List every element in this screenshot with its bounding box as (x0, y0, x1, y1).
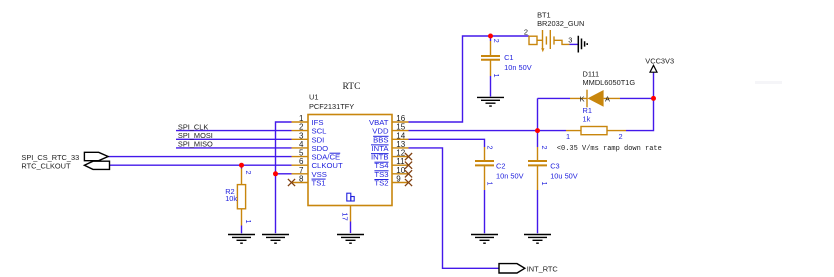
svg-text:1: 1 (540, 182, 549, 186)
svg-text:2: 2 (244, 171, 253, 175)
svg-text:BR2032_GUN: BR2032_GUN (537, 19, 584, 28)
svg-text:17: 17 (340, 212, 349, 220)
svg-text:SDO: SDO (312, 144, 329, 153)
svg-text:<0.35 V/ms ramp down rate: <0.35 V/ms ramp down rate (557, 145, 662, 153)
svg-text:A: A (605, 95, 610, 104)
svg-text:1: 1 (244, 220, 253, 224)
svg-text:2: 2 (486, 146, 495, 150)
svg-text:13: 13 (396, 140, 405, 149)
svg-text:RTC_CLKOUT: RTC_CLKOUT (21, 161, 71, 170)
svg-text:C2: C2 (496, 161, 505, 170)
svg-text:1k: 1k (583, 115, 591, 124)
svg-text:MMDL6050T1G: MMDL6050T1G (583, 78, 636, 87)
svg-text:2: 2 (492, 39, 501, 43)
svg-text:1: 1 (492, 74, 501, 78)
svg-text:9: 9 (396, 175, 401, 184)
svg-text:10n 50V: 10n 50V (504, 63, 532, 72)
svg-text:2: 2 (524, 27, 528, 36)
svg-text:C1: C1 (504, 53, 513, 62)
svg-text:PCF2131TFY: PCF2131TFY (309, 102, 354, 111)
svg-text:SCL: SCL (312, 127, 328, 136)
svg-text:TS1: TS1 (312, 179, 326, 188)
svg-text:10u 50V: 10u 50V (550, 172, 578, 181)
svg-text:U1: U1 (309, 93, 318, 102)
svg-text:2: 2 (299, 123, 304, 132)
svg-text:VDD: VDD (372, 127, 389, 136)
svg-text:SPI_MISO: SPI_MISO (178, 140, 213, 149)
svg-text:K: K (580, 95, 585, 104)
svg-text:2: 2 (540, 146, 549, 150)
svg-text:10k: 10k (225, 194, 237, 203)
svg-text:1: 1 (566, 132, 570, 141)
svg-text:2: 2 (619, 132, 623, 141)
svg-text:3: 3 (568, 35, 572, 44)
svg-text:8: 8 (299, 175, 304, 184)
svg-text:10: 10 (396, 166, 405, 175)
svg-text:C3: C3 (550, 161, 559, 170)
svg-text:INT_RTC: INT_RTC (527, 264, 559, 273)
svg-text:10n 50V: 10n 50V (496, 172, 524, 181)
svg-text:VCC3V3: VCC3V3 (645, 57, 674, 66)
svg-text:4: 4 (299, 140, 304, 149)
svg-text:1: 1 (486, 182, 495, 186)
svg-text:SPI_CLK: SPI_CLK (178, 122, 208, 131)
svg-text:7: 7 (299, 166, 304, 175)
svg-text:VSS: VSS (312, 170, 327, 179)
svg-text:RTC: RTC (343, 82, 361, 92)
svg-text:15: 15 (396, 123, 405, 132)
